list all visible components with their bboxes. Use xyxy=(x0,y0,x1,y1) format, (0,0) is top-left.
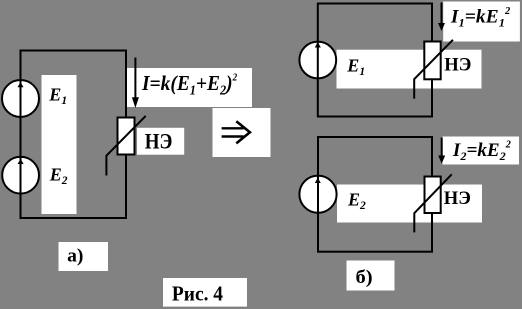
source E2 circle (circuit b bottom) xyxy=(299,176,336,213)
label box: Рис. 4 xyxy=(163,278,247,307)
text: E2 (circuit b bottom) xyxy=(347,189,366,212)
arrow of source E2 (circuit a) xyxy=(18,159,24,164)
varistor diagonal with tail (circuit a) xyxy=(106,116,145,176)
current arrow I1 (circuit b top) xyxy=(441,3,443,25)
box: implication double-arrow xyxy=(213,108,271,157)
text: I2=kE2^2 (circuit b bottom) xyxy=(452,139,511,162)
wire loop (circuit b top) xyxy=(318,4,432,117)
svg-text:а): а) xyxy=(67,246,83,266)
arrow of source E1 (circuit a) xyxy=(18,82,24,87)
svg-text:б): б) xyxy=(356,267,373,288)
text: E1 (circuit a) xyxy=(48,84,67,107)
svg-text:НЭ: НЭ xyxy=(444,188,471,209)
source E1 circle (circuit b top) xyxy=(299,42,336,79)
double arrow symbol => xyxy=(222,121,250,143)
label box: formula I=k(E1+E2)^2 (circuit a) xyxy=(126,68,252,107)
svg-text:Рис. 4: Рис. 4 xyxy=(172,283,223,306)
nonlinear element НЭ body (circuit b top) xyxy=(424,42,440,80)
label box: E1/E2 sources (circuit a) xyxy=(42,75,77,214)
wire loop (circuit b bottom) xyxy=(318,137,432,252)
text: I1=kE1^2 (circuit b top) xyxy=(450,6,510,29)
text: I=k(E1+E2)^2 (circuit a) xyxy=(141,72,237,98)
nonlinear element НЭ body (circuit a) xyxy=(118,118,135,155)
text: НЭ (circuit a) xyxy=(145,128,173,154)
text: б) xyxy=(356,267,373,288)
varistor diagonal with tail (circuit b bottom) xyxy=(414,174,451,232)
current arrow I (circuit a) xyxy=(134,58,136,101)
svg-text:НЭ: НЭ xyxy=(145,128,173,154)
arrow of source E1 (circuit b top) xyxy=(315,42,321,48)
svg-text:НЭ: НЭ xyxy=(444,54,471,75)
text: Рис. 4 xyxy=(172,283,223,306)
label box: а) xyxy=(59,242,109,271)
label box: E2 band (circuit b bottom) xyxy=(337,185,482,223)
label box: б) xyxy=(347,261,395,291)
wire loop (circuit a) xyxy=(21,51,127,219)
label box: E1 band (circuit b top) xyxy=(337,50,482,89)
text: а) xyxy=(67,246,83,266)
text: E2 (circuit a) xyxy=(49,165,68,188)
text: НЭ (circuit b bottom) xyxy=(444,188,471,209)
source E1 circle (circuit a) xyxy=(2,80,39,117)
nonlinear element НЭ body (circuit b bottom) xyxy=(425,177,441,214)
varistor diagonal with tail (circuit b top) xyxy=(414,40,453,99)
text: E1 (circuit b top) xyxy=(346,56,365,79)
current arrow I2 (circuit b bottom) xyxy=(441,138,443,157)
label box: I1=kE1^2 (circuit b top) xyxy=(443,2,520,42)
source E2 circle (circuit a) xyxy=(2,157,39,194)
text: НЭ (circuit b top) xyxy=(444,54,471,75)
arrow of source E2 (circuit b bottom) xyxy=(315,178,321,183)
label box: НЭ (circuit a) xyxy=(137,128,184,155)
label box: I2=kE2^2 (circuit b bottom) xyxy=(443,137,520,165)
